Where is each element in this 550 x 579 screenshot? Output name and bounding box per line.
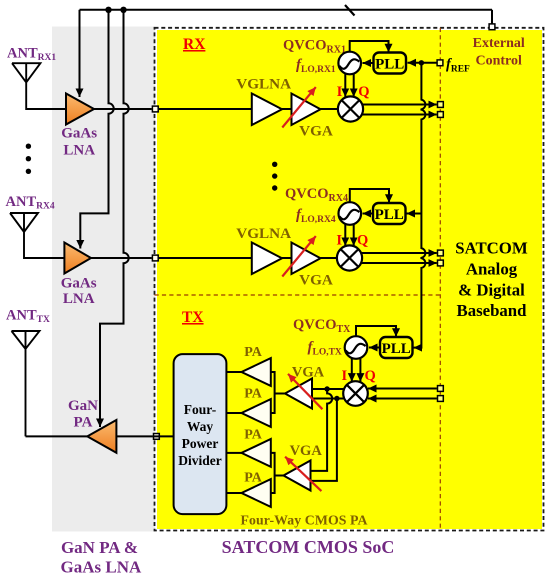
dashed separator RX/TX [155,294,441,296]
PLL U3 [380,337,413,358]
svg-text:VGLNA: VGLNA [236,76,291,93]
wire divider output to GaN PA [116,435,152,437]
svg-text:Q: Q [365,368,376,384]
svg-text:& Digital: & Digital [458,281,525,300]
top external control bus wire [80,9,493,11]
svg-text:PA: PA [244,387,263,402]
oscillator QVCO_RX4 [339,202,362,225]
svg-text:I: I [342,368,348,384]
wire VGA2 to mixer2 [321,257,338,259]
port square TX on SoC edge [154,434,160,440]
wire baseband I into mixer3 [368,388,437,390]
node fREF junction [419,60,424,65]
node ellipsis dots middle [272,162,277,191]
node junction dot C [120,7,126,13]
port square mixer2 Q [438,260,444,266]
yellow SoC region fill [157,30,542,529]
amplifier GaAs LNA1 [66,94,94,125]
port square RX4 on SoC edge [152,255,158,261]
SoC dashed border [155,28,544,531]
red gain arrow TX VGA2 [285,457,321,491]
port square mixer3 I [438,386,444,392]
wire control line C into GaN PA (with hops) [100,10,129,427]
svg-text:VGA: VGA [290,443,323,459]
wire feedback osc3 to PLL3 [356,326,396,337]
svg-text:PLL: PLL [375,57,404,73]
wire mixer3 output upper to TX VGA1 [312,388,345,390]
svg-text:RX: RX [183,36,206,53]
wire fREF to PLL1 [408,62,437,64]
svg-text:Power: Power [182,436,219,451]
port square fREF [437,60,443,66]
wire PLL3 to osc3 [369,347,380,349]
wire mixer1 Q output to baseband [362,114,437,116]
svg-text:TX: TX [182,309,204,326]
amplifier VGA1 (RX row1) [292,94,321,126]
port square RX1 on SoC edge [152,106,158,112]
wire baseband Q into mixer3 [368,398,437,400]
wire PA4 to divider [226,492,241,494]
svg-text:Analog: Analog [466,260,518,279]
wire VGA2 tip to PA pair2 bus [275,475,284,477]
wire LO Q into mixer3 [359,358,361,381]
node ellipsis dots left [26,144,31,175]
svg-text:Control: Control [475,54,522,69]
amplifier PA3 [242,439,271,467]
node dot B [334,396,339,401]
amplifier VGLNA1 [252,94,282,126]
svg-text:Baseband: Baseband [457,301,528,320]
svg-text:LNA: LNA [63,143,95,159]
amplifier TX VGA2 [284,461,311,491]
svg-text:PLL: PLL [382,341,411,357]
gray front-end region [52,27,155,532]
svg-text:SATCOM CMOS SoC: SATCOM CMOS SoC [222,537,395,557]
wire VGA1 tip to PA pair1 bus [275,393,285,395]
oscillator QVCO_RX1 [338,52,361,75]
wire mixer2 I output to baseband [361,252,437,254]
wire branch B to TX VGA2 [311,399,337,481]
wire LNA1 output to SoC port [94,108,152,110]
wire LNA2 output to SoC port [91,257,152,259]
svg-text:Way: Way [187,419,214,434]
wire control line B into GaAs LNA2 (with hop) [80,10,113,249]
svg-text:Q: Q [358,84,369,100]
wire PA pair1 bus [271,372,275,413]
red gain arrow VGA1 [282,87,316,127]
svg-text:GaAs: GaAs [61,276,97,292]
wire mixer2 Q output to baseband [361,262,437,264]
wire LO I into mixer2 [344,224,346,246]
wire fREF tap to PLL2 [407,213,422,215]
red gain arrow VGA2 [282,236,316,276]
wire LO I into mixer1 [344,74,346,97]
wire RX4 port to VGLNA2 [159,257,252,259]
port square top [489,24,495,30]
wire LO Q into mixer2 [353,224,355,246]
wire control line A into GaAs LNA1 [79,10,81,97]
svg-text:PA: PA [244,428,263,443]
wire RX1 port to VGLNA [159,108,252,110]
oscillator QVCO_TX [345,336,368,359]
amplifier PA4 [242,479,271,507]
svg-text:PA: PA [244,345,263,360]
svg-text:SATCOM: SATCOM [455,239,528,258]
port square mixer1 Q [438,112,444,118]
amplifier GaAs LNA2 [64,243,91,274]
svg-text:Four-Way CMOS PA: Four-Way CMOS PA [241,513,368,528]
bus slash [345,5,355,16]
svg-text:Q: Q [357,233,368,249]
wire GaN PA output to antenna [26,435,88,437]
wire PA pair2 bus [271,453,275,493]
wire fREF distribution vertical (hops over RX outputs) [414,63,426,348]
block Four-Way Power Divider [174,354,227,514]
amplifier PA1 [242,358,271,386]
wire PLL1 to osc1 [363,62,374,64]
antenna ANT_TX [12,331,40,436]
antenna ANT_RX4 [10,213,64,258]
port square mixer2 I [438,250,444,256]
PLL U1 [374,53,407,74]
svg-text:External: External [473,36,525,51]
wire PLL2 to osc2 [363,213,373,215]
wire feedback osc1 to PLL1 [350,41,389,52]
svg-text:VGA: VGA [299,272,333,289]
node dot A [324,386,329,391]
mixer M3 [343,381,368,406]
wire mixer1 I output to baseband [362,104,437,106]
amplifier GaN PA [87,420,116,453]
port square mixer3 Q [438,396,444,402]
dashed separator External Control strip [439,28,441,531]
wire PA2 to divider [226,412,241,414]
red gain arrow TX VGA1 [288,374,322,409]
wire divider to TX port [153,435,174,437]
mixer M2 [337,245,362,270]
wire bus drop to SoC [491,10,493,24]
svg-text:LNA: LNA [63,291,95,307]
svg-text:GaN: GaN [68,398,98,414]
amplifier VGA2 (RX row2) [292,243,321,275]
wire mixer3 output lower to TX VGA1 [312,398,345,400]
mixer M1 [338,96,363,121]
svg-text:Four-: Four- [184,402,217,417]
wire VGA1 to mixer1 [321,108,340,110]
amplifier VGLNA2 [252,243,282,275]
wire VGLNA1 to VGA1 [282,108,292,110]
wire branch A to TX VGA2 (hop over lower line) [311,389,333,471]
svg-text:Divider: Divider [178,453,222,468]
svg-text:VGLNA: VGLNA [236,225,291,242]
wire PA3 to divider [226,452,241,454]
svg-text:GaAs LNA: GaAs LNA [61,558,142,577]
wire LO I into mixer3 [351,358,353,381]
wire VGLNA2 to VGA2 [282,257,292,259]
svg-text:PLL: PLL [375,207,404,223]
PLL U2 [373,203,406,224]
amplifier TX VGA1 [285,379,312,409]
svg-text:GaN PA &: GaN PA & [61,538,138,557]
wire LO Q into mixer1 [353,74,355,97]
svg-text:VGA: VGA [299,123,333,140]
svg-text:I: I [336,233,342,249]
svg-text:I: I [337,84,343,100]
node junction dot B [105,7,111,13]
wire feedback osc2 to PLL2 [350,189,389,203]
svg-text:VGA: VGA [292,365,325,381]
antenna ANT_RX1 [12,63,66,109]
wire PA1 to divider [226,371,241,373]
port square mixer1 I [438,102,444,108]
svg-text:PA: PA [74,415,93,431]
amplifier PA2 [242,399,271,427]
svg-text:GaAs: GaAs [61,126,97,142]
